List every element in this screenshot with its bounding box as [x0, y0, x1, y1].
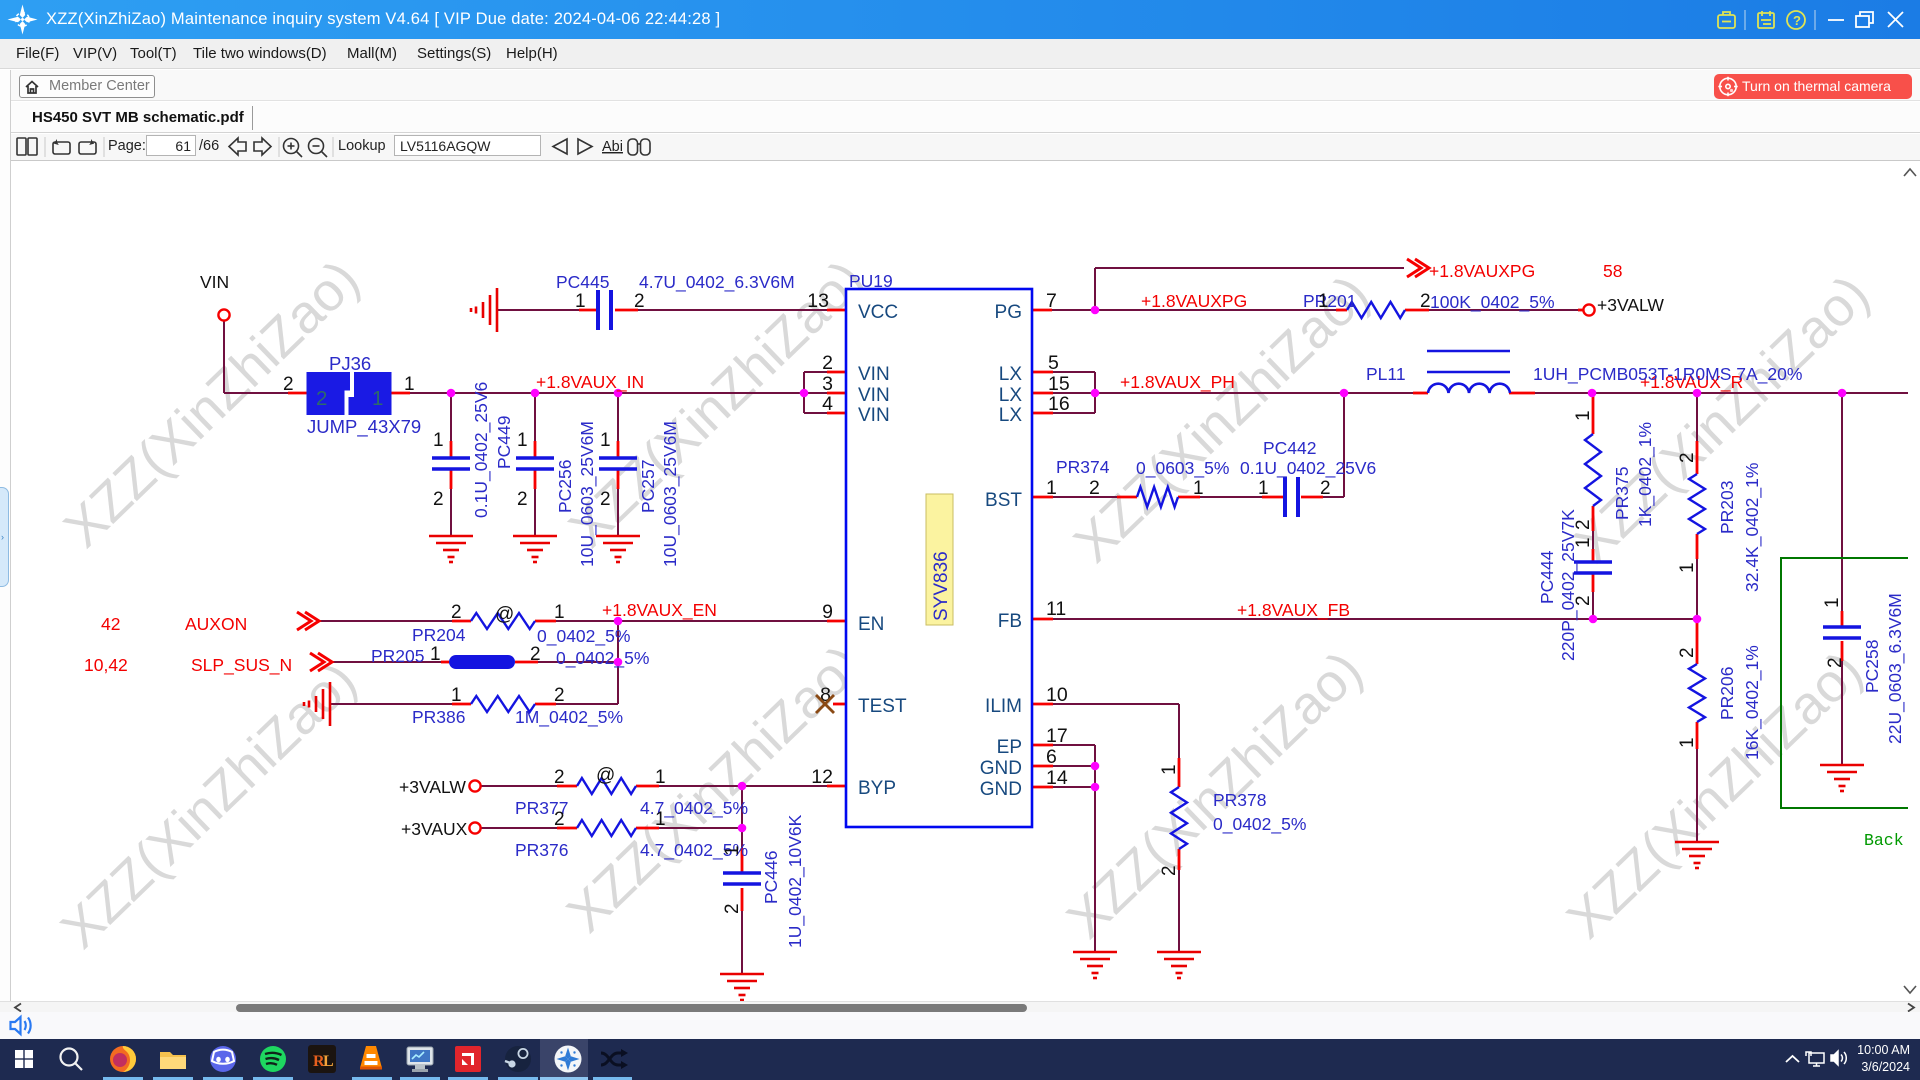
- svg-text:+1.8VAUX_EN: +1.8VAUX_EN: [602, 600, 717, 621]
- wire BYP net: [481, 785, 847, 787]
- network tray: [1806, 1052, 1824, 1066]
- svg-text:2: 2: [1159, 865, 1180, 876]
- svg-text:0_0402_5%: 0_0402_5%: [1213, 814, 1306, 835]
- svg-text:2: 2: [822, 352, 833, 374]
- svg-text:PR378: PR378: [1213, 790, 1267, 810]
- capacitor PC445: [598, 290, 611, 330]
- svg-text:+3VAUX: +3VAUX: [401, 819, 468, 839]
- svg-text:2: 2: [554, 767, 565, 788]
- svg-text:0_0402_5%: 0_0402_5%: [556, 648, 649, 669]
- svg-text:1: 1: [575, 291, 586, 312]
- svg-text:11: 11: [1046, 598, 1066, 620]
- svg-text:L: L: [323, 1053, 334, 1070]
- wire VIN pin bracket: [804, 372, 847, 413]
- svg-text:ILIM: ILIM: [985, 696, 1022, 717]
- svg-text:22U_0603_6.3V6M: 22U_0603_6.3V6M: [1885, 593, 1906, 744]
- svg-text:1: 1: [1193, 478, 1204, 499]
- wire BST net: [1032, 393, 1344, 497]
- node +1.8VAUXPG output arrow: [1407, 259, 1429, 277]
- svg-text:PR206: PR206: [1717, 666, 1737, 720]
- node VIN terminal: [218, 309, 229, 320]
- wire TEST pin stub: [833, 703, 847, 706]
- toolbar: [0, 134, 1920, 161]
- document tab row: [0, 102, 1920, 133]
- jumper PJ36 pads: [307, 372, 351, 415]
- svg-text:1: 1: [1677, 737, 1698, 748]
- capacitor PC444: [1574, 562, 1612, 573]
- svg-text:PC256: PC256: [555, 459, 575, 513]
- svg-text:+3VALW: +3VALW: [1597, 295, 1664, 315]
- svg-text:13: 13: [807, 290, 829, 312]
- svg-text:2: 2: [283, 374, 294, 395]
- XZZ active: [555, 1046, 582, 1073]
- pin numbers chip: [807, 290, 1100, 789]
- watermarks: [52, 248, 371, 559]
- resistor PR378: [1171, 787, 1187, 849]
- titlebar window icons: [1700, 0, 1920, 39]
- ground under PC449: [429, 536, 473, 562]
- svg-text:PC442: PC442: [1263, 438, 1317, 458]
- svg-text:1: 1: [1822, 597, 1843, 608]
- left gutter: [0, 70, 11, 1001]
- capacitor PC442: [1285, 477, 1298, 517]
- wire PR203 column: [1696, 393, 1698, 619]
- svg-text:1: 1: [1318, 291, 1329, 312]
- svg-text:17: 17: [1046, 725, 1068, 747]
- svg-text:VIN: VIN: [858, 405, 890, 426]
- svg-text:PR374: PR374: [1056, 457, 1110, 477]
- svg-text:EP: EP: [997, 737, 1022, 758]
- svg-text:@: @: [596, 765, 615, 786]
- svg-text:Back: Back: [1864, 831, 1904, 850]
- no-connect X on TEST pin: [816, 695, 834, 713]
- svg-text:1: 1: [1046, 477, 1057, 499]
- svg-text:2: 2: [634, 291, 645, 312]
- svg-text:9: 9: [822, 601, 833, 623]
- svg-text:PC444: PC444: [1537, 550, 1557, 604]
- svg-text:GND: GND: [980, 779, 1022, 800]
- svg-text:1: 1: [1573, 537, 1594, 548]
- svg-text:BYP: BYP: [858, 778, 896, 799]
- svg-text:0_0402_5%: 0_0402_5%: [537, 626, 630, 647]
- tray chevron: [1786, 1056, 1799, 1062]
- collapsed side panel tab: [0, 487, 9, 587]
- resistor PR375: [1585, 434, 1601, 506]
- folder: [160, 1052, 186, 1069]
- svg-text:2: 2: [554, 809, 565, 830]
- svg-text:LX: LX: [999, 405, 1023, 426]
- horizontal scrollbar: [0, 1001, 1920, 1012]
- svg-text:1: 1: [554, 602, 565, 623]
- svg-text:PR204: PR204: [412, 625, 466, 645]
- wire PC256 column: [534, 393, 536, 536]
- wire PR206 column: [1696, 619, 1698, 842]
- node SLP_SUS_N input arrow: [310, 653, 332, 671]
- svg-text:EN: EN: [858, 614, 884, 635]
- wire ILIM net: [1032, 704, 1179, 952]
- svg-text:2: 2: [316, 387, 327, 410]
- ground left of PR386: [304, 682, 330, 726]
- svg-text:10U_0603_25V6M: 10U_0603_25V6M: [660, 421, 681, 567]
- svg-text:0.1U_0402_25V6: 0.1U_0402_25V6: [1240, 458, 1376, 479]
- svg-text:1K_0402_1%: 1K_0402_1%: [1635, 422, 1656, 527]
- svg-text:2: 2: [517, 489, 528, 510]
- ground under PC446: [720, 974, 764, 1000]
- resistor PR206: [1689, 664, 1705, 722]
- svg-text:PR376: PR376: [515, 840, 569, 860]
- svg-text:+1.8VAUX_IN: +1.8VAUX_IN: [536, 372, 644, 393]
- ground under PC257: [596, 536, 640, 562]
- value label SYV836 highlight: [926, 494, 953, 625]
- wire VCC net: [497, 309, 847, 311]
- wire +1.8VAUXPG branch: [1095, 268, 1404, 310]
- resistor PR374: [1137, 487, 1178, 507]
- ground under PR378: [1157, 952, 1201, 978]
- svg-text:AUXON: AUXON: [185, 614, 247, 634]
- inductor PL11: [1427, 351, 1510, 393]
- pin names left: [858, 302, 907, 799]
- svg-text:16K_0402_1%: 16K_0402_1%: [1742, 645, 1763, 760]
- svg-text:2: 2: [1677, 452, 1698, 463]
- svg-text:1: 1: [1677, 562, 1698, 573]
- discord: [210, 1046, 236, 1072]
- svg-text:@: @: [495, 604, 514, 625]
- svg-text:PC258: PC258: [1862, 639, 1882, 693]
- svg-text:58: 58: [1603, 261, 1622, 281]
- svg-text:2: 2: [1089, 477, 1100, 499]
- resistor PR204: [471, 613, 535, 629]
- ground left of PC445: [471, 288, 497, 332]
- svg-text:0.1U_0402_25V6: 0.1U_0402_25V6: [471, 382, 492, 518]
- svg-text:1: 1: [433, 430, 444, 451]
- svg-text:3: 3: [822, 373, 833, 395]
- svg-text:220P_0402_25V7K: 220P_0402_25V7K: [1558, 509, 1579, 661]
- svg-text:+1.8VAUX_PH: +1.8VAUX_PH: [1120, 372, 1235, 393]
- svg-text:1: 1: [451, 685, 462, 706]
- resistor PR376: [577, 820, 636, 836]
- svg-text:4: 4: [822, 393, 833, 415]
- wire +1.8VAUX_EN net: [318, 620, 847, 622]
- svg-text:PC257: PC257: [638, 459, 658, 513]
- shuffle icon: [601, 1053, 623, 1065]
- search: [61, 1049, 83, 1071]
- menu bar: [0, 39, 1920, 69]
- resistor PR203: [1689, 474, 1705, 534]
- capacitor PC257: [599, 458, 637, 469]
- svg-text:2: 2: [530, 644, 541, 665]
- white strip with speaker: [0, 1012, 1920, 1039]
- vertical scroll chevrons: [1904, 169, 1916, 176]
- svg-text:TEST: TEST: [858, 696, 907, 717]
- wire +1.8VAUX_IN rail: [390, 392, 804, 394]
- wire +3VAUX net: [481, 827, 742, 829]
- svg-text:2: 2: [722, 903, 743, 914]
- node +3VAUX terminal: [469, 822, 480, 833]
- capacitor PC449: [432, 458, 470, 469]
- speaker tray: [1831, 1051, 1846, 1065]
- svg-text:15: 15: [1048, 373, 1070, 395]
- wire PC257 column: [617, 393, 619, 536]
- wire SLP_SUS_N net: [331, 621, 618, 704]
- svg-text:32.4K_0402_1%: 32.4K_0402_1%: [1742, 463, 1763, 592]
- windows start: [15, 1050, 33, 1068]
- svg-text:2: 2: [433, 489, 444, 510]
- svg-text:2: 2: [1677, 647, 1698, 658]
- svg-text:2: 2: [1825, 657, 1846, 668]
- steam: [505, 1046, 531, 1072]
- svg-text:2: 2: [1420, 291, 1431, 312]
- svg-text:PG: PG: [995, 302, 1022, 323]
- svg-text:14: 14: [1046, 767, 1068, 789]
- svg-text:FB: FB: [998, 611, 1022, 632]
- node +3VALW terminal right: [1583, 304, 1594, 315]
- svg-text:+3VALW: +3VALW: [399, 777, 466, 797]
- svg-text:1: 1: [1573, 410, 1594, 421]
- spotify: [260, 1046, 286, 1072]
- ground under PC258: [1820, 765, 1864, 791]
- node +3VALW terminal left: [469, 780, 480, 791]
- svg-text:4.7U_0402_6.3V6M: 4.7U_0402_6.3V6M: [639, 272, 795, 293]
- svg-text:1M_0402_5%: 1M_0402_5%: [515, 707, 623, 728]
- svg-text:PR375: PR375: [1612, 466, 1632, 520]
- ground under PR206: [1675, 842, 1719, 868]
- capacitor PC446: [723, 873, 761, 884]
- wire VIN input net: [224, 321, 307, 393]
- svg-text:PJ36: PJ36: [329, 353, 371, 374]
- svg-text:JUMP_43X79: JUMP_43X79: [307, 416, 421, 438]
- wire PR386 net: [330, 703, 618, 705]
- wire PR375/PC444 column: [1592, 393, 1594, 619]
- svg-text:LX: LX: [999, 364, 1023, 385]
- svg-text:1U_0402_10V6K: 1U_0402_10V6K: [785, 814, 806, 948]
- svg-text:VIN: VIN: [200, 272, 229, 292]
- svg-text:1: 1: [372, 387, 383, 410]
- svg-text:GND: GND: [980, 758, 1022, 779]
- node AUXON input arrow: [297, 612, 319, 630]
- svg-text:1: 1: [655, 809, 666, 830]
- member center row: [0, 70, 1920, 101]
- taskbar: [0, 1039, 1920, 1080]
- svg-text:PR205: PR205: [371, 646, 425, 666]
- running app underlines: [103, 1077, 143, 1080]
- svg-text:2: 2: [600, 489, 611, 510]
- resistor PR205 zero-ohm jumper: [449, 655, 515, 669]
- svg-text:5: 5: [1048, 352, 1059, 374]
- svg-text:1UH_PCMB053T-1R0MS 7A_20%: 1UH_PCMB053T-1R0MS 7A_20%: [1533, 364, 1802, 385]
- svg-text:0_0603_5%: 0_0603_5%: [1136, 458, 1229, 479]
- svg-text:+1.8VAUXPG: +1.8VAUXPG: [1429, 261, 1535, 281]
- wire PG net: [1032, 309, 1583, 311]
- svg-text:42: 42: [101, 614, 120, 634]
- svg-text:2: 2: [1320, 478, 1331, 499]
- monitor app: [407, 1047, 433, 1065]
- svg-text:100K_0402_5%: 100K_0402_5%: [1430, 292, 1555, 313]
- green region box: [1781, 558, 1920, 808]
- resistor PR386: [471, 696, 535, 712]
- AMD: [455, 1046, 481, 1072]
- svg-text:SLP_SUS_N: SLP_SUS_N: [191, 655, 292, 676]
- svg-text:PC445: PC445: [556, 272, 610, 292]
- svg-text:1: 1: [655, 767, 666, 788]
- svg-text:2: 2: [1573, 519, 1594, 530]
- svg-text:1: 1: [430, 644, 441, 665]
- resistor PR201: [1347, 302, 1405, 318]
- wire PC258 column: [1841, 393, 1843, 765]
- wire +1.8VAUX_PH rail: [1095, 392, 1428, 394]
- svg-text:PR386: PR386: [412, 707, 466, 727]
- svg-text:1: 1: [600, 430, 611, 451]
- svg-text:PC446: PC446: [761, 850, 781, 904]
- svg-text:PU19: PU19: [849, 271, 893, 291]
- svg-text:2: 2: [451, 602, 462, 623]
- svg-text:1: 1: [1258, 478, 1269, 499]
- pin names right: [980, 302, 1023, 800]
- capacitor PC256: [516, 458, 554, 469]
- discrete pin numbers: [283, 291, 1431, 830]
- ground under PC256: [513, 536, 557, 562]
- RL app: [308, 1045, 336, 1073]
- firefox: [110, 1046, 136, 1072]
- VLC: [360, 1046, 382, 1068]
- svg-text:7: 7: [1046, 290, 1057, 312]
- svg-text:6: 6: [1046, 746, 1057, 768]
- svg-text:12: 12: [811, 766, 833, 788]
- wire EP/GND net: [1032, 745, 1095, 952]
- svg-text:1: 1: [1159, 764, 1180, 775]
- resistor PR377: [577, 778, 636, 794]
- svg-text:PR203: PR203: [1717, 480, 1737, 534]
- wire PC449 column: [450, 393, 452, 536]
- red thermal camera button: [1714, 74, 1912, 99]
- wire PC446 column: [741, 786, 743, 974]
- svg-text:16: 16: [1048, 393, 1070, 415]
- app logo compass star: [0, 0, 46, 39]
- svg-text:+1.8VAUXPG: +1.8VAUXPG: [1141, 291, 1247, 311]
- op-amp U1: regulator PU19 SYV836 body: [846, 289, 1032, 827]
- svg-text:10,42: 10,42: [84, 655, 128, 675]
- svg-text:1: 1: [722, 845, 743, 856]
- svg-text:VIN: VIN: [858, 364, 890, 385]
- svg-text:10: 10: [1046, 684, 1068, 706]
- svg-text:PL11: PL11: [1366, 364, 1406, 384]
- svg-text:VIN: VIN: [858, 385, 890, 406]
- svg-text:BST: BST: [985, 490, 1022, 511]
- svg-text:1: 1: [517, 430, 528, 451]
- svg-text:VCC: VCC: [858, 302, 898, 323]
- svg-text:2: 2: [1573, 595, 1594, 606]
- wire +1.8VAUX_FB net: [1032, 618, 1697, 620]
- svg-text:+1.8VAUX_FB: +1.8VAUX_FB: [1237, 600, 1350, 621]
- svg-text:LX: LX: [999, 385, 1023, 406]
- svg-text:PR201: PR201: [1303, 291, 1357, 311]
- svg-text:PC449: PC449: [494, 415, 514, 469]
- capacitor PC258: [1823, 627, 1861, 638]
- svg-text:SYV836: SYV836: [931, 551, 952, 621]
- svg-text:1: 1: [404, 374, 415, 395]
- title bar: [0, 0, 1920, 39]
- ground under EP/GND: [1073, 952, 1117, 978]
- wire LX pin bracket: [1032, 372, 1095, 413]
- svg-text:10U_0603_25V6M: 10U_0603_25V6M: [577, 421, 598, 567]
- wire +1.8VAUX_R rail: [1509, 392, 1920, 394]
- svg-text:2: 2: [554, 685, 565, 706]
